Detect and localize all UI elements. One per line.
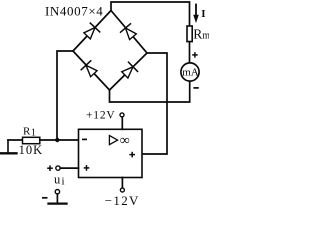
label meter plus bbox=[192, 52, 198, 57]
wire input left terminal to R1 bbox=[8, 139, 23, 141]
wire left vertex stub and left rail down to node A bbox=[57, 51, 73, 140]
terminal ui minus circle bbox=[55, 190, 59, 194]
svg-text:10K: 10K bbox=[19, 143, 44, 157]
svg-text:mA: mA bbox=[182, 67, 199, 79]
diode D1 top-left bbox=[82, 23, 99, 40]
resistor Rm body bbox=[187, 26, 192, 42]
op-amp U1 body bbox=[79, 129, 143, 177]
wire top rail from bridge top to right rail bbox=[111, 2, 190, 26]
terminal -12V circle bbox=[120, 188, 124, 192]
terminal ui minus bar bbox=[49, 202, 67, 204]
op-amp triangle symbol bbox=[109, 136, 117, 145]
current arrow I bbox=[193, 5, 199, 24]
wire ui minus drop bbox=[56, 194, 58, 203]
svg-text:+12V: +12V bbox=[86, 109, 116, 121]
label op-amp non-inverting input bbox=[84, 165, 90, 171]
terminal ui plus circle bbox=[56, 166, 60, 170]
wire bridge top-right side bbox=[111, 11, 147, 54]
wire bridge bottom-left side bbox=[73, 51, 110, 90]
label ui source plus bbox=[47, 165, 53, 171]
diode D2 top-right bbox=[121, 24, 138, 41]
svg-text:I: I bbox=[201, 8, 205, 20]
wire bridge bottom-right side bbox=[110, 53, 148, 90]
wire op-amp bottom to -12V terminal bbox=[121, 178, 123, 189]
wire bottom vertex stub, bottom run, up to meter minus bbox=[110, 81, 190, 102]
svg-text:ui: ui bbox=[54, 172, 65, 187]
svg-text:R1: R1 bbox=[23, 126, 36, 139]
wire bridge top-left side bbox=[73, 11, 111, 52]
label meter minus bbox=[193, 87, 198, 89]
node A junction dot bbox=[55, 138, 59, 142]
wire Rm bottom to meter top bbox=[189, 42, 191, 63]
terminal input bar lower-left bbox=[7, 140, 9, 153]
label op-amp output plus bbox=[129, 152, 135, 158]
resistor R1 body bbox=[23, 137, 40, 143]
wire +12V to op-amp top bbox=[121, 117, 123, 129]
diode D3 bottom-left bbox=[81, 61, 98, 78]
wire ui to op-amp non-inverting input bbox=[60, 167, 78, 169]
label op-amp inverting input bbox=[82, 138, 87, 140]
svg-text:−12V: −12V bbox=[105, 193, 140, 208]
meter mA body bbox=[181, 63, 199, 81]
svg-text:IN4007×4: IN4007×4 bbox=[45, 3, 103, 18]
wire R1 to op-amp inverting input bbox=[40, 139, 79, 141]
diode D4 bottom-right bbox=[120, 62, 137, 79]
svg-text:∞: ∞ bbox=[120, 134, 130, 149]
label ui source minus bbox=[42, 197, 48, 199]
terminal +12V circle bbox=[120, 113, 124, 117]
wire right vertex stub, drop and op-amp output link bbox=[142, 53, 167, 154]
